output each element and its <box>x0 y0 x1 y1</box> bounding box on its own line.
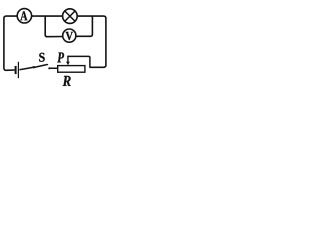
wire: voltmeter branch right with junction to top wire <box>76 16 93 36</box>
battery B1: long thin positive plate <box>17 62 19 78</box>
rheostat slider arrow P <box>67 56 69 63</box>
wire: top-right run and right vertical down to bottom-right <box>77 16 106 67</box>
wire: left vertical + bottom-left run to battery <box>4 16 17 70</box>
node A: voltmeter branch left junction <box>45 16 63 37</box>
resistor R (rheostat) box <box>58 66 85 73</box>
wire: slider to right vertical <box>68 56 90 67</box>
wire: top wire between ammeter and lamp <box>32 15 63 17</box>
switch S: lever (open) <box>34 65 47 68</box>
op: ammeter U1 circle <box>17 9 31 23</box>
label P of slider <box>57 53 64 63</box>
voltmeter V1 circle <box>63 29 76 42</box>
label R of rheostat <box>63 76 71 86</box>
switch S: left contact dot <box>33 66 35 68</box>
label S of switch <box>39 53 45 62</box>
label A of ammeter <box>20 11 27 20</box>
label V of voltmeter <box>66 32 73 40</box>
switch S: right contact dot <box>48 67 50 69</box>
wire: battery to switch <box>19 67 33 69</box>
lamp L1 circle with cross <box>63 9 78 24</box>
background <box>0 0 110 87</box>
battery B1: short thick negative plate <box>15 66 17 74</box>
wire: switch to rheostat left terminal <box>49 67 57 69</box>
